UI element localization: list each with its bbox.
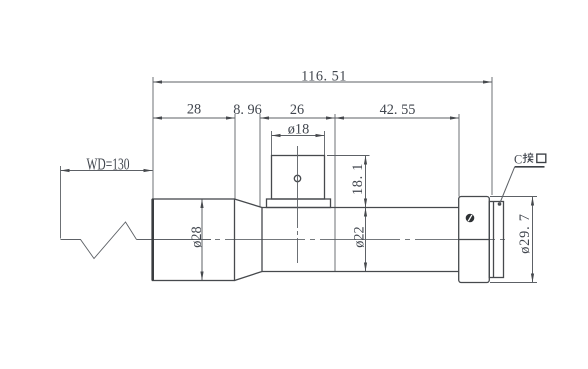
screw symbol on flange (466, 214, 475, 223)
svg-text:8. 96: 8. 96 (233, 102, 262, 118)
dimension 26 (260, 117, 335, 119)
dimension phi18 (272, 135, 325, 137)
dimension 18.1 vertical (365, 156, 367, 208)
wire extension line x=459 (458, 114, 460, 197)
C-mount ring (489, 202, 503, 278)
wire extension line x=153 (152, 77, 154, 199)
dimension phi29.7 vertical (532, 197, 534, 283)
wire extension line x=235 (234, 114, 236, 199)
lens barrel front cylinder phi28 (153, 199, 235, 281)
protrusion top box phi18 (272, 156, 325, 200)
flange plate under protrusion (267, 199, 331, 208)
svg-text:ø29. 7: ø29. 7 (517, 213, 533, 254)
svg-text:C: C (514, 153, 522, 167)
protrusion centerline vertical (297, 146, 299, 263)
protrusion screw hole circle (294, 175, 300, 181)
leader line for C-mount label (500, 167, 515, 204)
main barrel phi22 (262, 208, 459, 272)
lens front face thick line (151, 199, 154, 281)
glyph jie (接) hand-drawn (523, 153, 534, 163)
svg-text:116. 51: 116. 51 (301, 69, 347, 85)
dimension WD=130 (61, 170, 153, 172)
wire extension line y=155.5 for 18.1 (327, 155, 370, 157)
wire extension line x=335 (334, 114, 336, 272)
wire extension line x=260 (259, 114, 261, 207)
dimension phi22 vertical (365, 208, 367, 272)
dimension 116.51 (153, 81, 492, 83)
rear flange ring phi29.7 (459, 197, 490, 283)
wire centerline horizontal optical axis (137, 239, 212, 241)
svg-text:18. 1: 18. 1 (350, 163, 366, 195)
wire extension line phi18 left (271, 131, 273, 156)
wire extension line x=492 (491, 77, 493, 195)
svg-text:ø22: ø22 (352, 226, 368, 247)
dimension phi28 vertical (201, 199, 203, 281)
dimension 28 (153, 117, 235, 119)
C-mount ring inner edge (493, 202, 495, 278)
svg-text:28: 28 (187, 102, 201, 118)
dimension 42.55 (335, 117, 459, 119)
wire extension line y=282.5 for phi29.7 (490, 282, 537, 284)
taper cone section (235, 199, 263, 281)
svg-text:ø28: ø28 (189, 226, 205, 247)
svg-text:ø18: ø18 (288, 121, 309, 137)
wire extension line phi18 right (324, 131, 326, 156)
flange ring mid joint line (459, 239, 490, 241)
wire extension line y=196.5 for phi29.7 (490, 196, 537, 198)
svg-text:42. 55: 42. 55 (380, 102, 416, 118)
svg-text:WD=130: WD=130 (86, 155, 129, 174)
svg-text:26: 26 (290, 102, 304, 118)
glyph kou (口) hand-drawn (537, 154, 546, 162)
node object-plane zigzag break line (61, 166, 137, 259)
leader dot on C ring (498, 202, 502, 206)
